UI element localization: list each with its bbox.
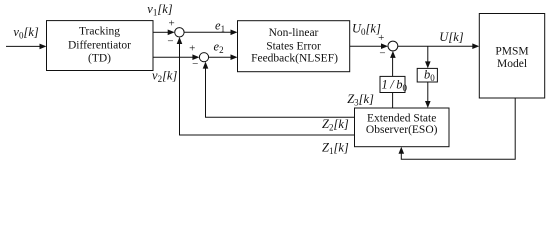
summing junction S1 (175, 28, 184, 37)
block ESO: Extended State Observer (355, 108, 450, 147)
svg-text:−: − (192, 58, 198, 70)
wire: Z3 from ESO up to 1/b0 (392, 93, 394, 109)
svg-text:−: − (167, 36, 173, 48)
svg-text:Feedback(NLSEF): Feedback(NLSEF) (251, 53, 338, 65)
svg-text:Z1[k]: Z1[k] (322, 140, 349, 156)
svg-text:Tracking: Tracking (79, 26, 120, 38)
svg-text:Extended State: Extended State (367, 112, 436, 124)
wire: e1 to NLSEF (184, 31, 231, 33)
svg-text:U[k]: U[k] (439, 30, 463, 44)
block TD: Tracking Differentiator (47, 21, 154, 71)
wire: Z1 from ESO left up into S1 (180, 43, 355, 135)
svg-text:Model: Model (497, 58, 527, 70)
wire: branch from U line down into b0 (427, 46, 429, 62)
svg-text:+: + (378, 32, 384, 44)
svg-text:−: − (379, 47, 385, 59)
svg-text:+: + (168, 18, 174, 30)
svg-text:Differentiator: Differentiator (68, 40, 131, 52)
wire: 1/b0 up into S3 (392, 57, 394, 76)
wire: PMSM output feedback down and into ESO bottom (401, 98, 515, 159)
svg-text:Z2[k]: Z2[k] (322, 117, 349, 133)
svg-text:(TD): (TD) (88, 53, 111, 65)
block PMSM Model (479, 14, 544, 99)
svg-text:Observer(ESO): Observer(ESO) (366, 124, 438, 136)
summing junction S3 (388, 41, 398, 51)
wire: Z2 from ESO left up into S2 (206, 68, 355, 118)
svg-text:Z3[k]: Z3[k] (347, 92, 374, 108)
block 1/b0 (380, 76, 405, 92)
svg-text:+: + (189, 42, 195, 54)
summing junction S2 (199, 53, 208, 62)
svg-text:v2[k]: v2[k] (152, 68, 177, 84)
wire: v1 from TD to summing junction S1 (153, 31, 169, 33)
wire: U0 from NLSEF to summing junction S3 (350, 45, 382, 47)
svg-text:v0[k]: v0[k] (13, 25, 38, 41)
wire: b0 down into ESO (427, 82, 429, 102)
wire: e2 to NLSEF (209, 56, 232, 58)
block b0 (417, 68, 437, 82)
svg-text:v1[k]: v1[k] (147, 2, 172, 18)
wire: v2 from TD to summing junction S2 (153, 56, 193, 58)
wire: input v0 into TD (6, 45, 41, 47)
svg-text:Non-linear: Non-linear (269, 27, 319, 39)
svg-text:U0[k]: U0[k] (352, 22, 381, 38)
svg-text:PMSM: PMSM (495, 46, 528, 58)
block NLSEF: Non-linear States Error Feedback (238, 21, 350, 72)
wire: U[k] from S3 to PMSM (398, 45, 474, 47)
svg-text:States Error: States Error (266, 40, 321, 52)
